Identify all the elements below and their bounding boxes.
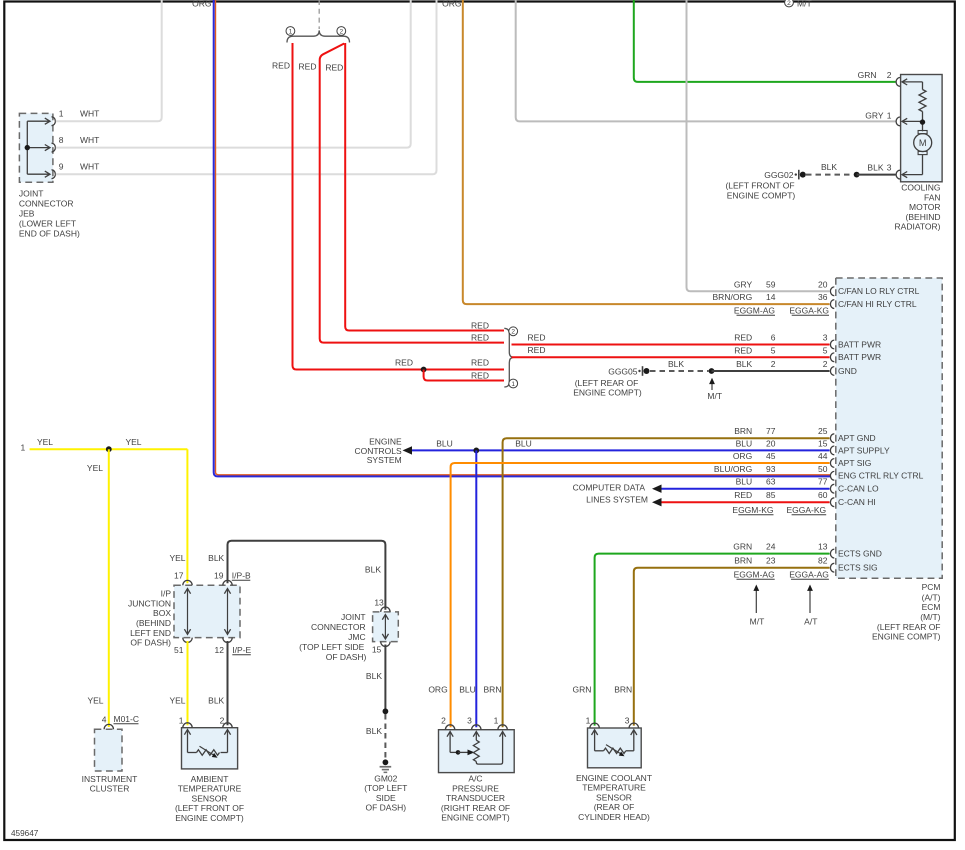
- svg-text:BLK: BLK: [736, 359, 752, 369]
- wire BLK JMC pin15 down: [384, 645, 386, 709]
- diagram number: [11, 829, 39, 838]
- engine coolant temperature sensor (rear of cylinder head): [576, 723, 652, 822]
- option 1 marker: [286, 27, 295, 36]
- svg-text:OF DASH): OF DASH): [130, 638, 171, 648]
- svg-text:(RIGHT REAR OF: (RIGHT REAR OF: [441, 803, 510, 813]
- label YEL above instrument cluster: [87, 696, 103, 706]
- wire YEL from left: [30, 448, 188, 450]
- label BLU left: [436, 438, 453, 448]
- svg-text:85: 85: [766, 490, 776, 500]
- svg-text:C/FAN LO RLY CTRL: C/FAN LO RLY CTRL: [838, 286, 920, 296]
- junction dot red: [421, 367, 427, 373]
- label RED 1: [272, 60, 290, 70]
- label pin 4 M01-C: [102, 714, 139, 725]
- svg-text:BLK: BLK: [668, 359, 684, 369]
- PCM pin 6/3 BATT PWR: [734, 333, 881, 350]
- svg-text:2: 2: [887, 70, 892, 80]
- svg-text:OF DASH): OF DASH): [326, 652, 367, 662]
- svg-text:ORG: ORG: [442, 0, 461, 8]
- svg-text:GRY: GRY: [865, 110, 884, 120]
- label YEL above I/P box: [169, 553, 185, 563]
- junction dot BLK fan: [854, 172, 860, 178]
- svg-text:13: 13: [818, 542, 828, 552]
- svg-text:RED: RED: [528, 345, 546, 355]
- label RED batt2: [528, 345, 546, 355]
- svg-text:JEB: JEB: [19, 209, 35, 219]
- svg-text:YEL: YEL: [169, 553, 185, 563]
- junction dot YEL: [106, 446, 112, 452]
- svg-text:BLK: BLK: [208, 553, 224, 563]
- svg-text:17: 17: [174, 570, 184, 580]
- wire WHT JEB pin8 to top: [56, 0, 411, 148]
- wire BRN/ORG from top to PCM C/FAN HI: [463, 0, 830, 304]
- svg-text:BRN: BRN: [734, 556, 752, 566]
- svg-text:93: 93: [766, 464, 776, 474]
- wire BRN APT GND to A/C transducer pin1: [503, 438, 830, 727]
- label ORG top right: [442, 0, 461, 8]
- wire BLK to fan pin3: [857, 174, 896, 176]
- svg-text:2: 2: [771, 359, 776, 369]
- joint connector JEB (lower left end of dash): [19, 113, 80, 238]
- svg-text:(REAR OF: (REAR OF: [594, 802, 635, 812]
- svg-text:EGGM-AG: EGGM-AG: [734, 305, 775, 315]
- label GRY pin1: [865, 110, 892, 120]
- wire BLK I/P pin12 to ambient sensor: [227, 641, 229, 725]
- label ORG top left: [192, 0, 211, 8]
- svg-text:APT SIG: APT SIG: [838, 458, 871, 468]
- svg-text:1: 1: [289, 28, 293, 35]
- svg-text:A/C: A/C: [468, 774, 482, 784]
- svg-text:4: 4: [102, 715, 107, 725]
- wire BLU APT SUPPLY: [412, 449, 830, 451]
- svg-text:(TOP LEFT: (TOP LEFT: [364, 783, 407, 793]
- svg-text:LINES SYSTEM: LINES SYSTEM: [586, 495, 648, 505]
- label YEL vertical: [87, 463, 103, 473]
- label RED above wire C: [471, 320, 489, 330]
- svg-text:JOINT: JOINT: [19, 189, 44, 199]
- svg-text:BLK: BLK: [366, 726, 382, 736]
- wire BLK to PCM GND: [712, 370, 830, 372]
- svg-text:ECTS GND: ECTS GND: [838, 549, 882, 559]
- svg-text:RED: RED: [471, 358, 489, 368]
- PCM pin 14/36 C/FAN HI RLY CTRL: [713, 292, 917, 309]
- svg-text:TRANSDUCER: TRANSDUCER: [446, 793, 505, 803]
- svg-text:YEL: YEL: [125, 437, 141, 447]
- wire YEL down to I/P junction box: [186, 449, 188, 583]
- label pin 19 I/P-B: [214, 570, 251, 580]
- label BRN above ACPT: [484, 684, 502, 694]
- svg-text:2: 2: [339, 28, 343, 35]
- wire BLU down to A/C transducer pin3: [475, 450, 477, 727]
- PCM pin 2/2 GND: [736, 359, 857, 376]
- label BLU above ACPT: [459, 684, 476, 694]
- svg-text:EGGA-KG: EGGA-KG: [787, 505, 827, 515]
- svg-text:BRN: BRN: [614, 684, 632, 694]
- svg-text:SENSOR: SENSOR: [192, 793, 228, 803]
- pin 1 label JEB: [59, 109, 100, 119]
- wire YEL I/P pin51 to ambient sensor: [187, 641, 189, 725]
- svg-text:YEL: YEL: [169, 696, 185, 706]
- svg-text:3: 3: [467, 716, 472, 726]
- label ACPT pin3: [467, 716, 472, 726]
- svg-text:COOLING: COOLING: [901, 183, 940, 193]
- svg-text:77: 77: [766, 426, 776, 436]
- wire RED A from brace to junction row: [293, 43, 505, 370]
- svg-text:M: M: [919, 138, 927, 148]
- dashed stub above red brace: [318, 0, 320, 29]
- svg-text:2: 2: [511, 329, 515, 336]
- svg-text:1: 1: [59, 109, 64, 119]
- svg-text:TEMPERATURE: TEMPERATURE: [582, 783, 646, 793]
- label RED 2: [299, 62, 317, 72]
- svg-text:ORG: ORG: [428, 684, 447, 694]
- wire BRN ECTS SIG: [634, 568, 830, 726]
- PCM pin 5/5 BATT PWR: [734, 345, 881, 362]
- svg-text:RADIATOR): RADIATOR): [895, 222, 941, 232]
- PCM pin 85/60 C-CAN HI: [734, 490, 876, 507]
- svg-text:ORG: ORG: [192, 0, 211, 8]
- option 2 marker: [337, 27, 346, 36]
- svg-text:RED: RED: [471, 370, 489, 380]
- svg-text:2: 2: [220, 716, 225, 726]
- label RED above wire B: [471, 332, 489, 342]
- svg-text:6: 6: [771, 333, 776, 343]
- svg-text:A/T: A/T: [804, 616, 817, 626]
- label BLK dashed GM02: [366, 726, 382, 736]
- svg-text:BATT PWR: BATT PWR: [838, 339, 881, 349]
- label YEL 2: [125, 437, 141, 447]
- M/T arrow below EGGM-AG: [750, 585, 765, 627]
- svg-text:RED: RED: [471, 320, 489, 330]
- svg-text:(LEFT REAR OF: (LEFT REAR OF: [877, 622, 941, 632]
- joint connector JMC (top left side of dash): [299, 607, 398, 662]
- svg-text:BLK: BLK: [867, 163, 883, 173]
- label EGGM-AG / EGGA-AG: [734, 569, 829, 579]
- svg-text:45: 45: [766, 451, 776, 461]
- svg-text:(BEHIND: (BEHIND: [136, 618, 171, 628]
- PCM pin 23/82 ECTS SIG: [734, 556, 877, 573]
- svg-text:YEL: YEL: [37, 437, 53, 447]
- svg-text:2: 2: [823, 359, 828, 369]
- wire GRN ECTS GND: [595, 554, 830, 726]
- svg-text:15: 15: [372, 645, 382, 655]
- svg-text:GND: GND: [838, 366, 857, 376]
- svg-text:50: 50: [818, 464, 828, 474]
- svg-text:AMBIENT: AMBIENT: [191, 774, 229, 784]
- svg-text:BRN: BRN: [734, 426, 752, 436]
- svg-text:RED: RED: [471, 332, 489, 342]
- svg-text:RED: RED: [395, 358, 413, 368]
- PCM pin 63/77 C-CAN LO: [736, 477, 879, 494]
- label GRN bottom: [573, 684, 592, 694]
- wire BLU C-CAN LO: [662, 488, 830, 490]
- svg-text:82: 82: [818, 556, 828, 566]
- svg-text:FAN: FAN: [924, 192, 941, 202]
- label YEL 1: [37, 437, 53, 447]
- I/P junction box (behind left end of dash): [128, 580, 240, 647]
- svg-text:WHT: WHT: [80, 109, 99, 119]
- label BRN bottom: [614, 684, 632, 694]
- label pin 15: [372, 645, 382, 655]
- svg-text:12: 12: [215, 645, 225, 655]
- svg-text:EGGM-AG: EGGM-AG: [734, 569, 775, 579]
- label ATS pin1: [179, 716, 184, 726]
- label pin 17: [174, 570, 184, 580]
- wire GRN from top to cooling fan pin2: [634, 0, 896, 82]
- PCM pin 59/20 C/FAN LO RLY CTRL: [734, 279, 920, 296]
- label 2 M/T top: [785, 0, 812, 8]
- svg-text:1: 1: [494, 716, 499, 726]
- label pin 12 I/P-E: [215, 645, 252, 655]
- svg-text:(LOWER LEFT: (LOWER LEFT: [19, 219, 76, 229]
- label BLU right: [515, 438, 532, 448]
- svg-text:1: 1: [511, 381, 515, 388]
- label pin 51: [174, 645, 184, 655]
- arrow to engine controls system: [403, 446, 413, 454]
- svg-text:14: 14: [766, 292, 776, 302]
- label BLK above ambient sensor: [208, 696, 224, 706]
- label ECTS pin1: [586, 716, 591, 726]
- svg-text:BLU: BLU: [459, 684, 476, 694]
- svg-text:3: 3: [625, 716, 630, 726]
- wire RED B slanted from brace: [320, 44, 504, 343]
- arrow C-CAN HI: [652, 498, 662, 506]
- wire ORG APT SIG to A/C transducer pin2: [451, 463, 830, 727]
- svg-text:TEMPERATURE: TEMPERATURE: [178, 784, 242, 794]
- svg-text:BLK: BLK: [208, 696, 224, 706]
- svg-text:RED: RED: [528, 333, 546, 343]
- label BLK pin3: [867, 163, 891, 173]
- wire RED branch below junction: [424, 370, 504, 381]
- svg-text:CLUSTER: CLUSTER: [90, 784, 130, 794]
- svg-text:M/T: M/T: [750, 616, 765, 626]
- label RED batt1: [528, 333, 546, 343]
- svg-text:YEL: YEL: [87, 696, 103, 706]
- svg-text:9: 9: [59, 162, 64, 172]
- svg-text:EGGA-KG: EGGA-KG: [789, 305, 829, 315]
- svg-text:BLU: BLU: [436, 438, 453, 448]
- option 1 marker right: [509, 379, 518, 388]
- svg-text:2: 2: [441, 716, 446, 726]
- wire BLK from I/P pin19 to JMC pin13: [228, 541, 386, 610]
- svg-text:44: 44: [818, 451, 828, 461]
- svg-text:YEL: YEL: [87, 463, 103, 473]
- ambient temperature sensor (left front of engine compt): [175, 723, 244, 823]
- svg-text:20: 20: [766, 438, 776, 448]
- label YEL above ambient sensor: [169, 696, 185, 706]
- svg-text:RED: RED: [734, 490, 752, 500]
- label BLK above I/P box: [208, 553, 224, 563]
- instrument cluster: [82, 724, 138, 793]
- svg-text:C-CAN LO: C-CAN LO: [838, 484, 879, 494]
- label RED right of junction: [471, 358, 489, 368]
- svg-text:13: 13: [374, 597, 384, 607]
- svg-text:BRN/ORG: BRN/ORG: [713, 292, 753, 302]
- svg-text:GRN: GRN: [858, 70, 877, 80]
- svg-text:(LEFT FRONT OF: (LEFT FRONT OF: [175, 803, 244, 813]
- svg-text:WHT: WHT: [80, 135, 99, 145]
- svg-text:GRN: GRN: [573, 684, 592, 694]
- svg-text:60: 60: [818, 490, 828, 500]
- label ATS pin2: [220, 716, 225, 726]
- svg-text:77: 77: [818, 477, 828, 487]
- svg-text:(A/T): (A/T): [922, 592, 941, 602]
- svg-text:GGG05: GGG05: [608, 366, 638, 376]
- svg-text:CONNECTOR: CONNECTOR: [311, 622, 366, 632]
- svg-text:I/P: I/P: [161, 589, 172, 599]
- pin 8 label JEB: [59, 135, 100, 145]
- wire RED C-CAN HI: [662, 501, 830, 503]
- svg-text:BLK: BLK: [365, 565, 381, 575]
- svg-text:15: 15: [818, 438, 828, 448]
- svg-text:END OF DASH): END OF DASH): [19, 229, 80, 239]
- svg-text:19: 19: [214, 570, 224, 580]
- label pin 1 YEL: [20, 443, 25, 453]
- svg-text:2: 2: [787, 0, 791, 7]
- svg-text:LEFT END: LEFT END: [130, 628, 171, 638]
- svg-text:3: 3: [887, 163, 892, 173]
- svg-text:JMC: JMC: [348, 632, 365, 642]
- svg-text:APT SUPPLY: APT SUPPLY: [838, 445, 890, 455]
- svg-text:51: 51: [174, 645, 184, 655]
- wire RED to PCM BATT PWR pin6: [512, 344, 830, 346]
- label EGGM-AG / EGGA-KG: [734, 305, 829, 315]
- svg-text:ENG CTRL RLY CTRL: ENG CTRL RLY CTRL: [838, 471, 924, 481]
- svg-text:SIDE: SIDE: [376, 793, 396, 803]
- svg-text:ENGINE COMPT): ENGINE COMPT): [441, 813, 510, 823]
- label GRN pin2: [858, 70, 892, 80]
- svg-text:(BEHIND: (BEHIND: [906, 212, 941, 222]
- wire BLK dashed to GM02: [384, 714, 386, 758]
- svg-text:(M/T): (M/T): [920, 612, 940, 622]
- label COMPUTER DATA LINES SYSTEM: [573, 483, 648, 505]
- M/T arrow at GND junction: [707, 378, 722, 402]
- svg-text:INSTRUMENT: INSTRUMENT: [82, 774, 138, 784]
- wire YEL down to instrument cluster: [108, 449, 110, 727]
- wire GRY from top to cooling fan pin1: [516, 0, 896, 121]
- svg-text:5: 5: [771, 345, 776, 355]
- svg-text:GM02: GM02: [374, 774, 397, 784]
- svg-text:EGGM-KG: EGGM-KG: [732, 505, 773, 515]
- svg-text:459647: 459647: [11, 829, 39, 838]
- label EGGM-KG / EGGA-KG: [732, 505, 826, 515]
- PCM/ECM connector box: [836, 278, 942, 641]
- svg-text:GRY: GRY: [734, 279, 753, 289]
- PCM pin 45/44 APT SIG: [733, 451, 872, 468]
- svg-text:1: 1: [20, 443, 25, 453]
- svg-text:BLU/ORG: BLU/ORG: [714, 464, 752, 474]
- svg-text:ORG: ORG: [733, 451, 752, 461]
- label BLK gnd dashed: [668, 359, 684, 369]
- label pin 13: [374, 597, 384, 607]
- svg-text:BLK: BLK: [821, 162, 837, 172]
- svg-text:BLU: BLU: [515, 438, 532, 448]
- svg-text:(LEFT REAR OF: (LEFT REAR OF: [575, 378, 639, 388]
- wire WHT JEB pin9 to top: [56, 0, 437, 174]
- svg-text:BATT PWR: BATT PWR: [838, 352, 881, 362]
- wire WHT JEB pin1 to top: [56, 0, 162, 121]
- svg-text:BRN: BRN: [484, 684, 502, 694]
- arrow C-CAN LO: [652, 485, 662, 493]
- label ORG above ACPT: [428, 684, 447, 694]
- svg-text:BLU: BLU: [736, 477, 753, 487]
- svg-text:JOINT: JOINT: [341, 612, 366, 622]
- svg-text:(TOP LEFT SIDE: (TOP LEFT SIDE: [299, 642, 365, 652]
- svg-text:ENGINE COOLANT: ENGINE COOLANT: [576, 773, 652, 783]
- svg-text:PRESSURE: PRESSURE: [452, 783, 499, 793]
- svg-text:25: 25: [818, 426, 828, 436]
- svg-text:I/P-B: I/P-B: [232, 570, 251, 580]
- label ACPT pin2: [441, 716, 446, 726]
- PCM pin 93/50 ENG CTRL RLY CTRL: [714, 464, 924, 481]
- svg-text:M01-C: M01-C: [114, 714, 140, 724]
- ground GGG05 (left rear of engine compt): [573, 366, 649, 397]
- label ENGINE CONTROLS SYSTEM: [354, 437, 402, 465]
- svg-text:BOX: BOX: [153, 608, 171, 618]
- A/T arrow below EGGA-AG: [804, 585, 817, 627]
- pin 9 label JEB: [59, 162, 100, 172]
- svg-text:MOTOR: MOTOR: [909, 202, 940, 212]
- svg-text:C/FAN HI RLY CTRL: C/FAN HI RLY CTRL: [838, 299, 917, 309]
- svg-text:SENSOR: SENSOR: [596, 792, 632, 802]
- PCM pin 77/25 APT GND: [734, 426, 875, 443]
- svg-text:BLK: BLK: [366, 671, 382, 681]
- A/C pressure transducer (right rear of engine compt): [439, 725, 515, 823]
- svg-text:ENGINE COMPT): ENGINE COMPT): [727, 190, 796, 200]
- svg-text:WHT: WHT: [80, 162, 99, 172]
- svg-text:RED: RED: [325, 62, 343, 72]
- PCM pin 24/13 ECTS GND: [733, 542, 882, 559]
- svg-text:CONNECTOR: CONNECTOR: [19, 199, 74, 209]
- wire BLK dashed GGG05 to junction: [650, 370, 709, 372]
- junction dot BLK gnd: [709, 368, 715, 374]
- label RED left of junction: [395, 358, 413, 368]
- label RED 3: [325, 62, 343, 72]
- svg-text:ENGINE COMPT): ENGINE COMPT): [573, 387, 642, 397]
- svg-text:C-CAN HI: C-CAN HI: [838, 497, 876, 507]
- svg-text:ECM: ECM: [922, 602, 941, 612]
- svg-text:RED: RED: [272, 60, 290, 70]
- svg-text:63: 63: [766, 477, 776, 487]
- svg-text:1: 1: [887, 110, 892, 120]
- label RED above branch: [471, 370, 489, 380]
- svg-text:8: 8: [59, 135, 64, 145]
- svg-text:BLU: BLU: [736, 438, 753, 448]
- svg-text:I/P-E: I/P-E: [232, 645, 251, 655]
- svg-text:CYLINDER HEAD): CYLINDER HEAD): [578, 812, 650, 822]
- svg-text:APT GND: APT GND: [838, 433, 876, 443]
- label ECTS pin3: [625, 716, 630, 726]
- label BLK below JMC: [366, 671, 382, 681]
- wire BLK dashed GGG02: [806, 174, 853, 176]
- svg-text:24: 24: [766, 542, 776, 552]
- svg-text:23: 23: [766, 556, 776, 566]
- wire RED to PCM BATT PWR pin5: [512, 356, 830, 358]
- svg-text:20: 20: [818, 279, 828, 289]
- svg-text:ENGINE COMPT): ENGINE COMPT): [872, 631, 941, 641]
- svg-text:JUNCTION: JUNCTION: [128, 599, 171, 609]
- label ACPT pin1: [494, 716, 499, 726]
- svg-text:36: 36: [818, 292, 828, 302]
- label BLK right of corner: [365, 565, 381, 575]
- junction dot BLU: [473, 448, 479, 454]
- svg-text:PCM: PCM: [922, 582, 941, 592]
- ground GGG02 (left front of engine compt): [725, 170, 805, 201]
- svg-text:ENGINE COMPT): ENGINE COMPT): [175, 813, 244, 823]
- svg-text:OF DASH): OF DASH): [365, 803, 406, 813]
- svg-text:3: 3: [823, 333, 828, 343]
- svg-text:M/T: M/T: [707, 391, 722, 401]
